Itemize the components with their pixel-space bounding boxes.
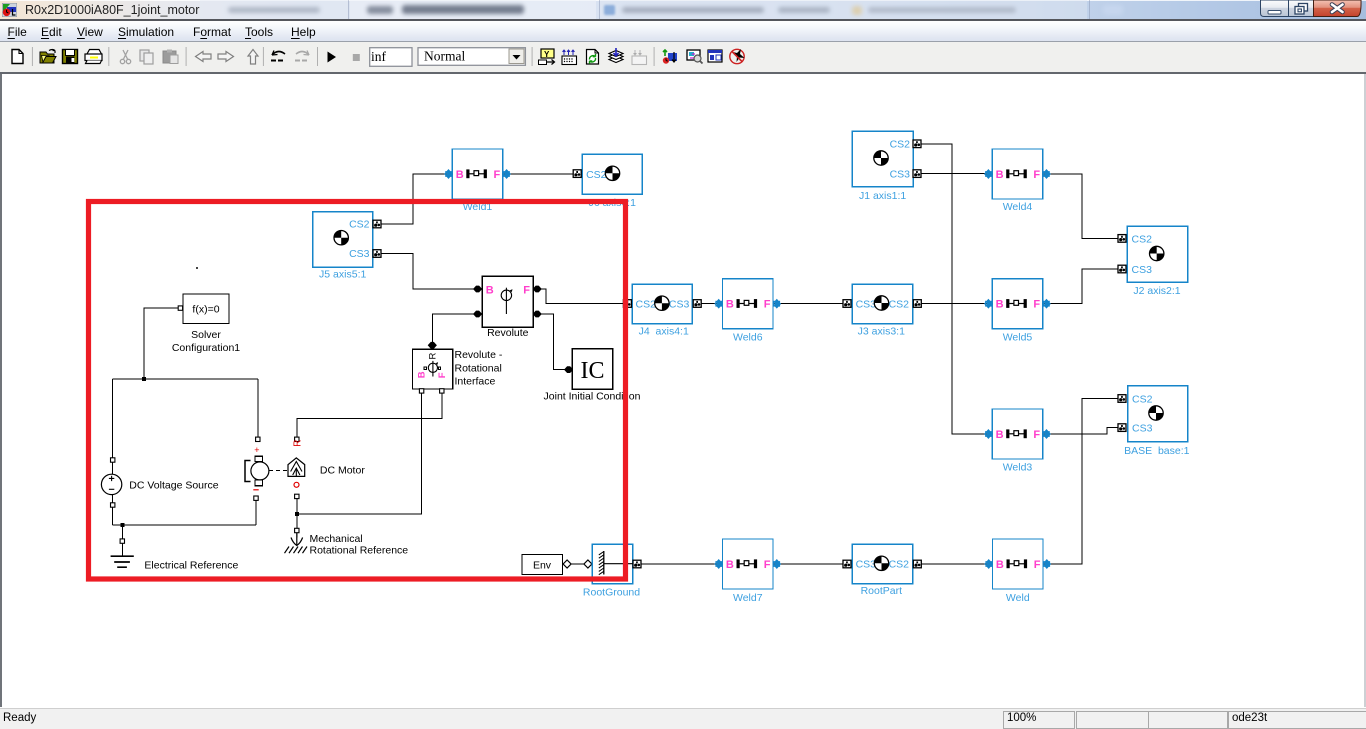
wire Weld5.F to J2.CS3 <box>1050 269 1118 304</box>
svg-text:Mechanical: Mechanical <box>310 533 363 545</box>
svg-text:f(x)=0: f(x)=0 <box>192 304 219 316</box>
block Weld7 <box>715 539 781 604</box>
svg-text:J2 axis2:1: J2 axis2:1 <box>1133 285 1180 297</box>
svg-text:Weld5: Weld5 <box>1003 331 1033 343</box>
toolbar <box>0 42 1366 72</box>
svg-text:Y: Y <box>544 50 550 59</box>
svg-text:Env: Env <box>533 560 552 572</box>
svg-text:Revolute: Revolute <box>487 327 529 339</box>
stop button <box>353 54 360 61</box>
svg-text:CS2: CS2 <box>349 219 370 231</box>
block Weld5 <box>985 279 1050 344</box>
wire bottom loop <box>113 524 256 526</box>
wire ground branch <box>121 525 123 556</box>
forward arrow <box>218 52 234 62</box>
open icon <box>40 50 56 64</box>
library browser icon <box>708 50 722 62</box>
wire Env link <box>571 563 584 565</box>
svg-text:CS3: CS3 <box>669 298 690 310</box>
wire left loop upper <box>112 379 114 474</box>
block Weld <box>985 539 1051 604</box>
window title bar <box>0 0 1366 19</box>
wire J3.CS2 to Weld5.B <box>921 303 985 305</box>
svg-text:Solver: Solver <box>191 329 221 341</box>
wire J5.CS2 to Weld1.B <box>381 174 446 224</box>
wire J1.CS3 to Weld4.B <box>921 173 986 175</box>
model explorer icon <box>687 50 703 64</box>
ground Mechanical Rotational Reference <box>285 528 409 556</box>
svg-text:B: B <box>486 284 494 296</box>
svg-text:IC: IC <box>581 358 605 384</box>
status bar <box>0 708 1366 729</box>
svg-text:B: B <box>416 371 427 378</box>
block Env <box>522 554 592 574</box>
svg-text:J5 axis5:1: J5 axis5:1 <box>319 269 366 281</box>
svg-text:Normal: Normal <box>424 49 465 64</box>
svg-text:CS3: CS3 <box>856 298 877 310</box>
svg-text:CS2: CS2 <box>636 298 657 310</box>
svg-text:CS2: CS2 <box>890 139 911 151</box>
wire RootGround to Weld7.B <box>641 563 716 565</box>
svg-text:DC Voltage Source: DC Voltage Source <box>129 480 218 492</box>
block J1 axis1:1 <box>852 131 921 201</box>
svg-text:Weld3: Weld3 <box>1003 462 1033 474</box>
window control buttons <box>1256 0 1366 19</box>
wire left loop lower <box>112 495 114 525</box>
wire motor shaft dashed <box>269 470 288 472</box>
svg-text:inf: inf <box>371 49 387 64</box>
svg-text:BASE base:1: BASE base:1 <box>1124 445 1190 457</box>
wire Weld6.F to J3.CS3 <box>780 303 843 305</box>
wire Weld7.F to RootPart.CS3 <box>780 563 843 565</box>
wire right loop to motor + <box>257 379 259 437</box>
svg-text:Weld6: Weld6 <box>733 331 763 343</box>
block Weld3 <box>985 409 1050 474</box>
wire Weld3.F to BASE.CS3 <box>1050 428 1118 434</box>
block J2 axis2:1 <box>1118 226 1188 297</box>
svg-text:CS3: CS3 <box>1132 423 1153 435</box>
save icon <box>63 50 78 64</box>
block Solver Configuration1 <box>172 294 240 354</box>
wire Revolute.F1 to J4.CS2 <box>541 289 625 304</box>
block Weld6 <box>715 279 781 344</box>
cut icon <box>120 50 130 64</box>
refresh model icon <box>587 50 599 65</box>
simulation mode dropdown <box>418 48 525 66</box>
wire Solver Configuration1 to node A <box>144 308 178 379</box>
svg-text:DC Motor: DC Motor <box>320 465 365 477</box>
block DC Motor <box>245 437 365 500</box>
svg-text:R: R <box>293 440 304 447</box>
svg-text:CS2: CS2 <box>889 559 910 571</box>
svg-text:CS3: CS3 <box>1132 264 1153 276</box>
svg-text:CS3: CS3 <box>856 559 877 571</box>
wire Revolute.B2 to Interface.R <box>432 314 475 342</box>
block Revolute-Rotational Interface U1 <box>413 342 503 393</box>
svg-text:F: F <box>523 284 530 296</box>
node B junction <box>120 523 124 527</box>
annotation red rectangle <box>89 202 626 580</box>
svg-text:J4 axis4:1: J4 axis4:1 <box>639 325 689 337</box>
svg-text:RootGround: RootGround <box>583 587 640 599</box>
svg-text:R: R <box>427 353 438 360</box>
play button <box>328 52 337 63</box>
svg-text:Rotational Reference: Rotational Reference <box>310 544 409 556</box>
svg-text:Weld4: Weld4 <box>1003 201 1033 213</box>
model browser toggle icon <box>539 49 555 65</box>
wire motor C to rotational reference <box>296 499 298 538</box>
block Weld4 <box>985 149 1050 213</box>
block DC Voltage Source <box>101 458 218 507</box>
svg-text:Revolute -: Revolute - <box>455 349 503 361</box>
annotation speck <box>196 267 198 269</box>
wire Weld1.F to J6.CS2 <box>510 173 573 175</box>
svg-text:CS2: CS2 <box>1132 233 1153 245</box>
redo icon <box>295 51 309 61</box>
wire J5.CS3 to Revolute.B1 <box>381 254 474 290</box>
menu bar <box>0 21 1366 42</box>
sim stop time field <box>370 48 412 67</box>
paste icon <box>163 50 178 64</box>
wire Revolute.F2 to IC <box>541 314 566 370</box>
stop fan icon <box>730 49 745 64</box>
debug icon <box>663 50 677 64</box>
wire top loop <box>113 378 258 380</box>
simulink model icon <box>2 3 17 17</box>
wire Interface.F to DC Motor R <box>297 393 442 437</box>
block BASE base:1 <box>1118 386 1190 457</box>
svg-text:CS2: CS2 <box>586 169 607 181</box>
new icon <box>12 50 23 64</box>
wire RootPart.CS2 to Weld.B <box>921 563 986 565</box>
svg-text:RootPart: RootPart <box>861 585 903 597</box>
svg-text:J3 axis3:1: J3 axis3:1 <box>858 326 905 338</box>
block J3 axis3:1 <box>843 284 921 337</box>
block RootGround <box>583 544 641 598</box>
undo icon <box>271 51 285 61</box>
svg-text:+: + <box>254 445 259 455</box>
block J6 axis6:1 <box>573 154 642 209</box>
svg-text:CS2: CS2 <box>1132 394 1153 406</box>
svg-text:F: F <box>437 372 448 378</box>
build all icon <box>609 48 623 63</box>
svg-text:CS3: CS3 <box>349 248 370 260</box>
wire J4.CS3 to Weld6.B <box>701 303 716 305</box>
disabled grid icon <box>632 50 647 65</box>
wire Weld4.F to J2.CS2 <box>1050 174 1118 238</box>
node C junction <box>295 512 299 516</box>
block J5 axis5:1 <box>313 212 382 281</box>
update diagram icon <box>562 50 577 65</box>
back arrow <box>196 52 212 62</box>
block IC Joint Initial Condition <box>544 349 641 403</box>
svg-text:Electrical Reference: Electrical Reference <box>144 560 238 572</box>
block J4 axis4:1 <box>623 284 701 337</box>
svg-text:Interface: Interface <box>455 376 496 388</box>
svg-text:CS3: CS3 <box>890 168 911 180</box>
wire Interface.B to node C <box>297 393 422 514</box>
node A junction <box>142 377 146 381</box>
svg-text:CS2: CS2 <box>889 298 910 310</box>
svg-text:J1 axis1:1: J1 axis1:1 <box>859 190 906 202</box>
block Revolute joint <box>473 276 542 339</box>
up arrow <box>248 50 258 65</box>
svg-text:Configuration1: Configuration1 <box>172 342 240 354</box>
block Weld1 <box>445 149 511 213</box>
block RootPart <box>843 544 921 597</box>
wire Weld.F to BASE.CS2 <box>1049 399 1118 565</box>
svg-text:Weld7: Weld7 <box>733 592 763 604</box>
copy icon <box>140 50 153 64</box>
svg-text:Rotational: Rotational <box>455 362 502 374</box>
wire motor - to bottom loop <box>255 501 257 525</box>
wire J1.CS2 to Weld3.B <box>921 144 986 434</box>
mechanical side of DC Motor <box>295 437 299 441</box>
svg-text:Weld: Weld <box>1006 592 1030 604</box>
ground Electrical Reference <box>111 539 239 572</box>
print icon <box>85 50 102 64</box>
